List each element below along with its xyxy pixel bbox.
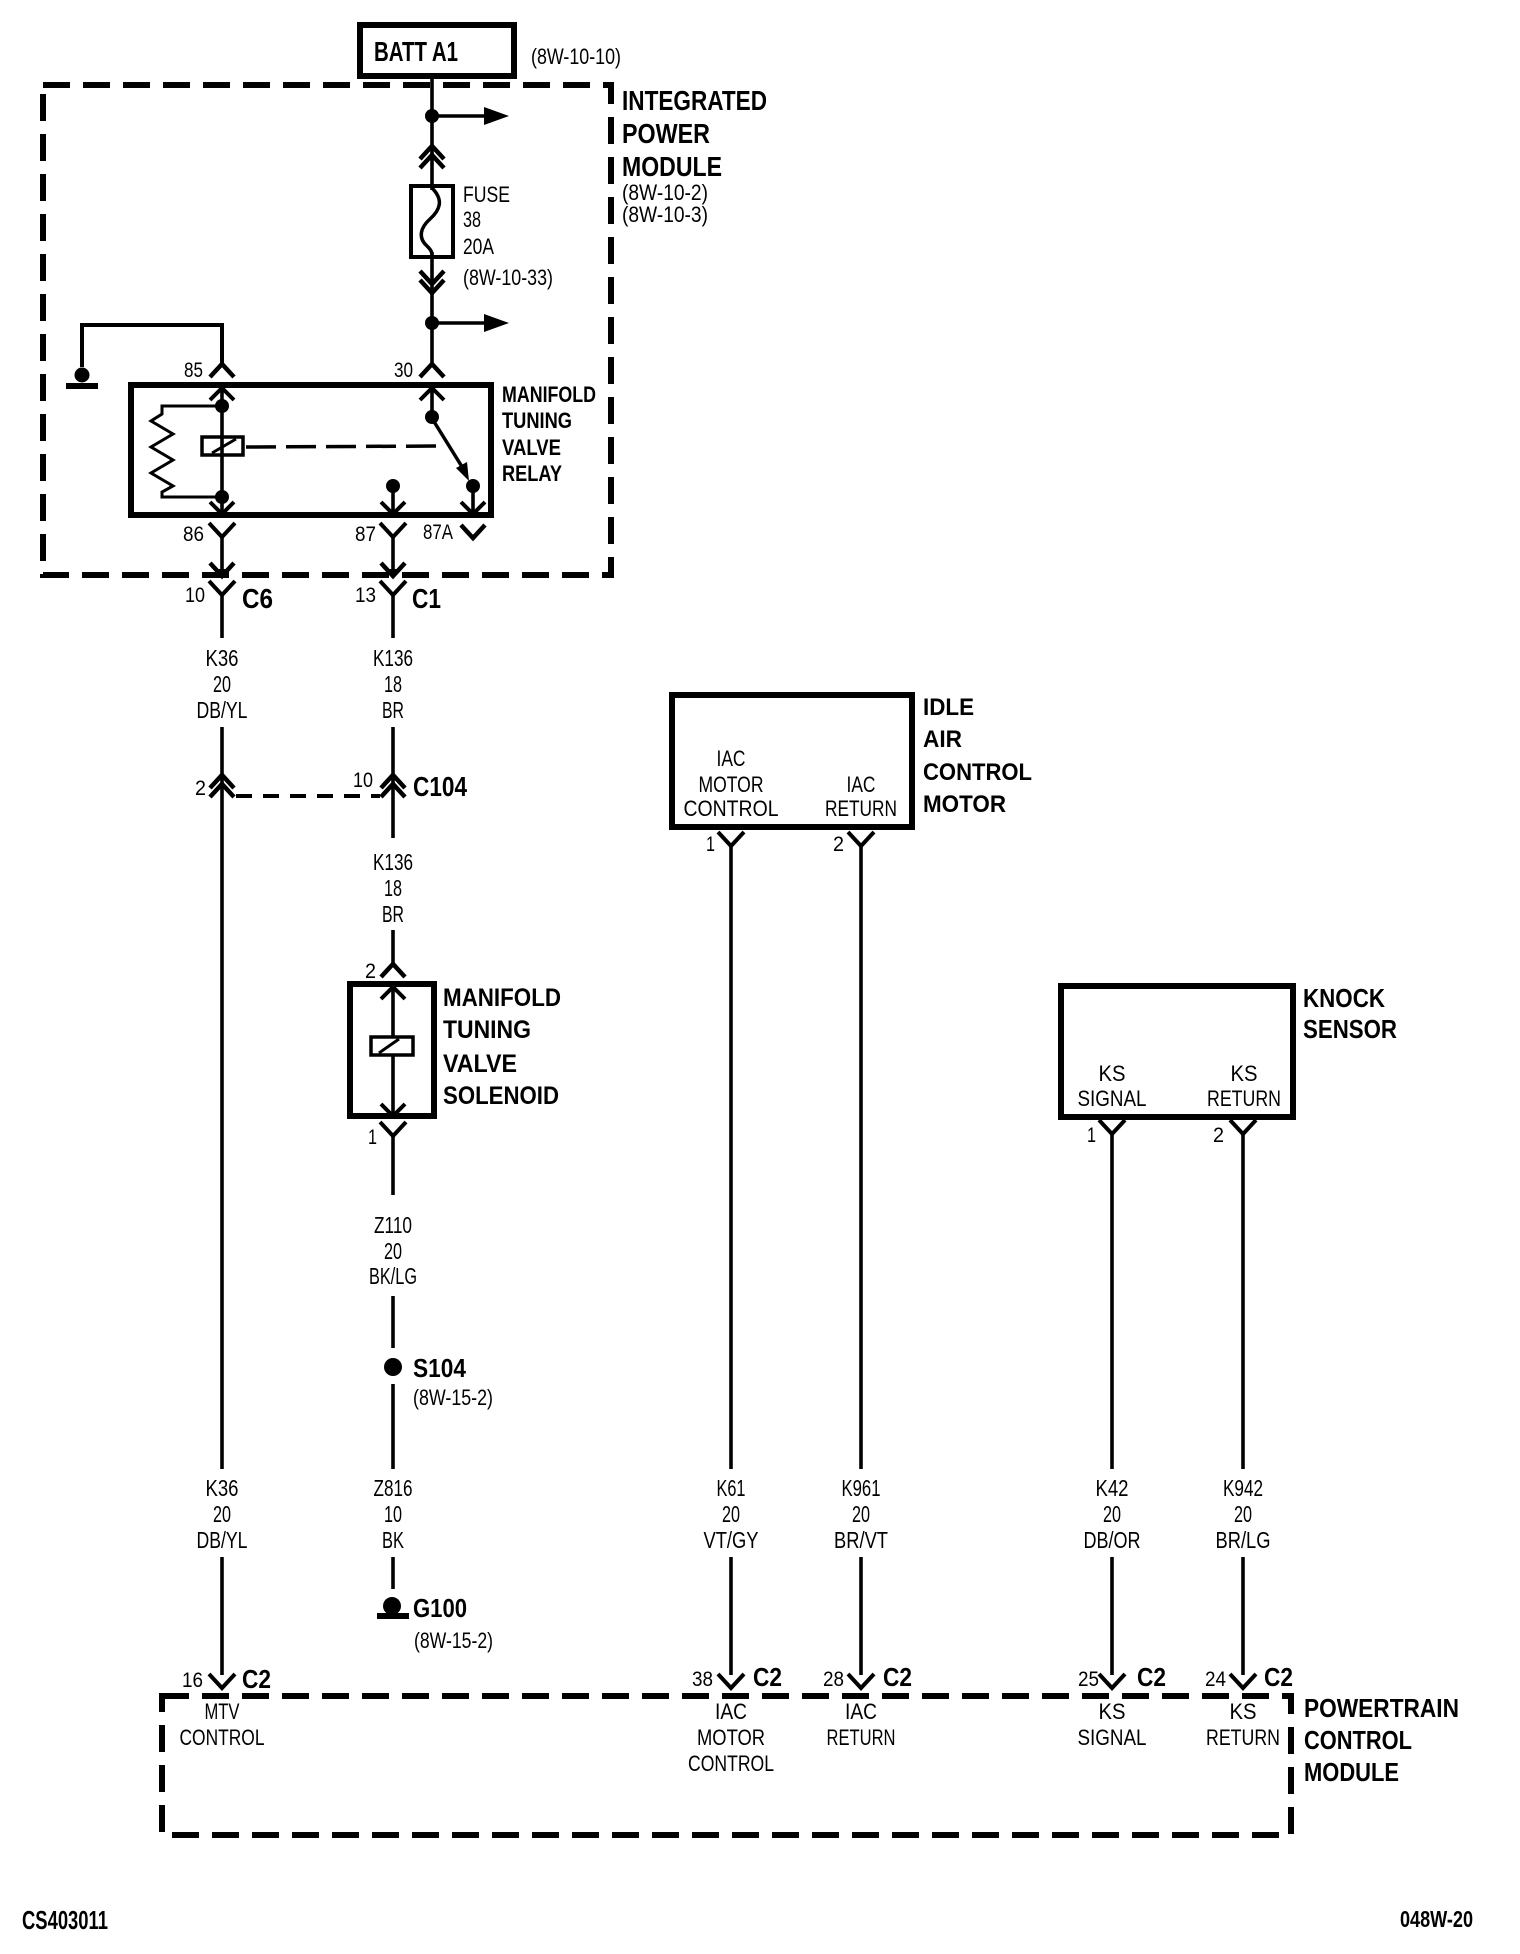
wire S104 to Z816 (391, 1384, 395, 1469)
svg-text:20A: 20A (463, 234, 494, 259)
connector C1 pin 13 label (355, 584, 376, 607)
power source box BATT A1 (360, 25, 514, 76)
svg-text:BR/VT: BR/VT (834, 1527, 888, 1553)
svg-text:16: 16 (182, 1669, 203, 1692)
solenoid pin 1 label (368, 1126, 377, 1149)
relay coil symbol (202, 437, 243, 455)
svg-text:38: 38 (692, 1668, 713, 1691)
svg-text:MODULE: MODULE (622, 151, 722, 182)
svg-text:BR: BR (382, 697, 404, 723)
svg-text:86: 86 (183, 523, 204, 546)
connector C104 pin 2 label (195, 777, 206, 800)
pcm pin 38 label (692, 1668, 713, 1691)
svg-text:KS: KS (1230, 1699, 1257, 1724)
ground G100 dot (383, 1597, 401, 1615)
wire relay pin 85 to ground (82, 325, 222, 367)
svg-text:20: 20 (722, 1501, 740, 1527)
idle air control motor pin name IAC RETURN (825, 772, 897, 821)
svg-text:C2: C2 (242, 1664, 271, 1694)
svg-text:20: 20 (213, 1501, 231, 1527)
svg-text:VALVE: VALVE (502, 435, 561, 460)
svg-text:C104: C104 (413, 771, 467, 802)
pin 85 chevron (210, 364, 234, 377)
pcm pin name KS RETURN (1206, 1699, 1280, 1750)
solenoid inner wire (391, 987, 395, 1116)
connector C104 pin 2 chevrons (210, 775, 234, 797)
svg-text:FUSE: FUSE (463, 182, 510, 207)
solenoid box MANIFOLD TUNING VALVE SOLENOID (350, 984, 434, 1116)
solenoid coil symbol (371, 1037, 413, 1055)
integrated power module dashed box (43, 85, 611, 575)
wire label K942 20 BR/LG (1216, 1475, 1271, 1553)
svg-text:POWERTRAIN: POWERTRAIN (1304, 1693, 1459, 1723)
ground splice dot (75, 368, 90, 383)
svg-text:20: 20 (852, 1501, 870, 1527)
connector C6 pin 10 label (185, 584, 205, 607)
svg-text:RETURN: RETURN (827, 1725, 896, 1750)
idle air control motor box (672, 695, 912, 827)
wire fuse to relay pin 30 (430, 252, 434, 364)
svg-text:1: 1 (706, 833, 715, 856)
pin 87A chevron (461, 525, 485, 538)
idle air control motor label (923, 694, 1032, 818)
connector C6 fork (209, 581, 235, 595)
pcm pin 25 fork (1099, 1674, 1125, 1688)
iac pin 1 label (706, 833, 715, 856)
svg-text:87: 87 (355, 523, 376, 546)
svg-text:SIGNAL: SIGNAL (1078, 1086, 1147, 1111)
pin 30 label (394, 359, 413, 382)
svg-text:DB/YL: DB/YL (197, 697, 248, 723)
svg-text:2: 2 (833, 833, 844, 856)
wire pin 87 to module edge (391, 537, 395, 571)
svg-text:28: 28 (823, 1668, 844, 1691)
pin 87A label (423, 521, 453, 544)
wire feed arrow right (432, 107, 509, 125)
wire label Z816 10 BK (374, 1475, 413, 1553)
svg-text:MANIFOLD: MANIFOLD (502, 382, 596, 407)
wire K42 to PCM pin 25 (1110, 1557, 1114, 1675)
svg-text:(8W-10-3): (8W-10-3) (622, 202, 708, 227)
svg-text:AIR: AIR (923, 726, 962, 753)
pin 86 exit arrow (210, 563, 234, 579)
svg-text:S104: S104 (413, 1353, 466, 1383)
connector C2 label at pin 25 (1137, 1662, 1166, 1692)
svg-text:(8W-10-33): (8W-10-33) (463, 265, 553, 290)
connector C6 label (242, 583, 273, 614)
svg-text:38: 38 (463, 207, 481, 232)
fuse element squiggle (421, 188, 439, 255)
svg-text:MOTOR: MOTOR (697, 1725, 765, 1750)
svg-text:SIGNAL: SIGNAL (1078, 1725, 1147, 1750)
ks pin 2 label (1213, 1124, 1224, 1147)
wire battery feed (430, 76, 434, 190)
svg-text:2: 2 (365, 960, 376, 983)
wire K942 run (1241, 1134, 1245, 1469)
inline connector chevrons below fuse (420, 271, 444, 293)
pcm pin 16 fork (209, 1674, 235, 1688)
relay switch 87A node (466, 479, 480, 493)
pcm pin name MTV CONTROL (180, 1699, 265, 1750)
iac pin 2 fork (848, 832, 874, 846)
ground symbol (66, 383, 98, 389)
relay shunt resistor (151, 406, 222, 497)
knock sensor pin name KS SIGNAL (1078, 1061, 1147, 1111)
svg-text:MOTOR: MOTOR (923, 791, 1006, 818)
pcm pin name KS SIGNAL (1078, 1699, 1147, 1750)
svg-text:C6: C6 (242, 583, 273, 614)
wire K136 above C104 (391, 727, 395, 796)
ground G100 symbol (377, 1613, 409, 1619)
svg-text:CONTROL: CONTROL (180, 1725, 265, 1750)
connector C2 label at pin 38 (753, 1662, 782, 1692)
wire pin 86 to module edge (220, 537, 224, 571)
relay pin 87A inner chevron (461, 502, 485, 514)
svg-text:MOTOR: MOTOR (699, 772, 764, 797)
wire K42 run (1110, 1134, 1114, 1469)
svg-text:MANIFOLD: MANIFOLD (443, 984, 561, 1012)
svg-text:G100: G100 (413, 1593, 467, 1623)
svg-text:(8W-10-10): (8W-10-10) (531, 44, 621, 69)
wire K36 above C104 (220, 727, 224, 796)
wire relay 87A (471, 486, 475, 515)
integrated power module label (622, 85, 767, 227)
iac pin 1 fork (718, 832, 744, 846)
wire K136 below C104 (391, 796, 395, 838)
svg-text:18: 18 (384, 875, 402, 901)
svg-text:KS: KS (1099, 1061, 1126, 1086)
ks pin 1 fork (1099, 1120, 1125, 1134)
svg-text:POWER: POWER (622, 118, 710, 149)
knock sensor pin name KS RETURN (1207, 1061, 1281, 1111)
svg-text:20: 20 (1103, 1501, 1121, 1527)
connector C2 label at pin 24 (1264, 1662, 1293, 1692)
connector C104 dashed link (236, 794, 380, 798)
sheet number 048W-20 (1400, 1906, 1473, 1932)
svg-text:CS403011: CS403011 (22, 1905, 108, 1935)
svg-text:CONTROL: CONTROL (688, 1751, 774, 1776)
relay switch common node (425, 410, 439, 424)
svg-text:20: 20 (384, 1238, 402, 1264)
svg-text:BK/LG: BK/LG (369, 1263, 417, 1289)
svg-text:2: 2 (195, 777, 206, 800)
ks pin 1 label (1087, 1124, 1096, 1147)
svg-text:BK: BK (382, 1527, 404, 1553)
connector C1 label (412, 583, 441, 614)
svg-text:13: 13 (355, 584, 376, 607)
svg-text:1: 1 (368, 1126, 377, 1149)
svg-text:BATT A1: BATT A1 (374, 36, 458, 67)
svg-text:IAC: IAC (717, 746, 746, 771)
svg-text:C2: C2 (753, 1662, 782, 1692)
reference label (8W-10-10) (531, 44, 621, 69)
powertrain control module label (1304, 1693, 1459, 1787)
svg-text:SENSOR: SENSOR (1303, 1014, 1397, 1044)
svg-text:SOLENOID: SOLENOID (443, 1082, 559, 1110)
connector C104 pin 10 chevrons (381, 775, 405, 797)
wire K61 run (729, 846, 733, 1469)
svg-text:Z816: Z816 (374, 1475, 413, 1501)
pcm pin 28 fork (848, 1674, 874, 1688)
pin 86 label (183, 523, 204, 546)
pin 30 chevron (420, 364, 444, 377)
knock sensor label (1303, 983, 1397, 1044)
fuse 38 box (411, 186, 453, 257)
wire K61 to PCM pin 38 (729, 1557, 733, 1675)
wire relay 87 (391, 486, 395, 515)
svg-text:10: 10 (185, 584, 205, 607)
svg-text:048W-20: 048W-20 (1400, 1906, 1473, 1932)
ks pin 2 fork (1230, 1120, 1256, 1134)
pin 85 label (184, 359, 203, 382)
ground G100 label (413, 1593, 467, 1623)
relay coil top node (215, 399, 229, 413)
wire K36 to PCM pin 16 (220, 1557, 224, 1675)
drawing number CS403011 (22, 1905, 108, 1935)
svg-text:K136: K136 (373, 849, 413, 875)
svg-text:K942: K942 (1223, 1475, 1263, 1501)
wire label K36 20 DB/YL (197, 645, 248, 723)
solenoid pin 2 chevron (381, 964, 405, 977)
svg-text:K61: K61 (717, 1475, 746, 1501)
idle air control motor pin name IAC MOTOR CONTROL (684, 746, 779, 821)
pcm pin 24 label (1205, 1668, 1226, 1691)
pcm pin 24 fork (1230, 1674, 1256, 1688)
svg-text:20: 20 (213, 671, 231, 697)
svg-text:18: 18 (384, 671, 402, 697)
relay 87 node (386, 479, 400, 493)
fuse label (463, 182, 553, 290)
wire label K61 20 VT/GY (704, 1475, 759, 1553)
svg-text:IAC: IAC (845, 1699, 877, 1724)
splice S104 reference (413, 1385, 493, 1410)
knock sensor box (1061, 986, 1293, 1117)
wire label Z110 20 BK/LG (369, 1212, 417, 1289)
splice S104 dot (384, 1358, 402, 1376)
svg-text:CONTROL: CONTROL (1304, 1725, 1412, 1755)
svg-text:1: 1 (1087, 1124, 1096, 1147)
solenoid label (443, 984, 561, 1110)
wire C1 stem (391, 595, 395, 638)
svg-text:10: 10 (384, 1501, 402, 1527)
svg-text:K136: K136 (373, 645, 413, 671)
svg-text:TUNING: TUNING (443, 1016, 531, 1044)
svg-text:DB/OR: DB/OR (1084, 1527, 1141, 1553)
pcm pin name IAC RETURN (827, 1699, 896, 1750)
connector C104 label (413, 771, 467, 802)
pcm pin 28 label (823, 1668, 844, 1691)
wire Z110 to S104 (391, 1296, 395, 1348)
wire label K136 18 BR repeat (373, 849, 413, 927)
connector C1 fork (380, 581, 406, 595)
svg-text:25: 25 (1078, 1668, 1099, 1691)
pin 87 fork (380, 523, 406, 537)
wire K136 to solenoid (391, 930, 395, 964)
wire Z816 to G100 (391, 1557, 395, 1589)
svg-text:C1: C1 (412, 583, 441, 614)
wire fused feed arrow right (432, 314, 509, 332)
svg-text:C2: C2 (1264, 1662, 1293, 1692)
svg-text:RETURN: RETURN (1206, 1725, 1280, 1750)
svg-text:IAC: IAC (715, 1699, 747, 1724)
relay pin 87 inner chevron (381, 502, 405, 514)
iac pin 2 label (833, 833, 844, 856)
wire label K42 20 DB/OR (1084, 1475, 1141, 1553)
svg-text:24: 24 (1205, 1668, 1226, 1691)
relay pin 30 inner chevron (420, 388, 444, 400)
wire K36 run to PCM (220, 796, 224, 1469)
svg-text:30: 30 (394, 359, 413, 382)
svg-text:K36: K36 (206, 645, 239, 671)
wire label K961 20 BR/VT (834, 1475, 888, 1553)
svg-text:CONTROL: CONTROL (684, 796, 779, 821)
svg-text:TUNING: TUNING (502, 408, 572, 433)
svg-text:10: 10 (353, 769, 373, 792)
svg-text:C2: C2 (883, 1662, 912, 1692)
svg-text:DB/YL: DB/YL (197, 1527, 248, 1553)
pin 87 exit arrow (381, 563, 405, 579)
relay pin 85 inner chevron (210, 388, 234, 400)
wire K942 to PCM pin 24 (1241, 1557, 1245, 1675)
pin 86 fork (209, 523, 235, 537)
svg-text:MODULE: MODULE (1304, 1757, 1399, 1787)
svg-text:(8W-15-2): (8W-15-2) (413, 1385, 493, 1410)
svg-text:INTEGRATED: INTEGRATED (622, 85, 767, 116)
svg-text:VALVE: VALVE (443, 1050, 517, 1078)
wire label K136 18 BR (373, 645, 413, 723)
svg-text:BR: BR (382, 901, 404, 927)
solenoid pin 1 fork (380, 1122, 406, 1136)
solenoid inner bottom chevron (381, 1104, 405, 1116)
relay coil bottom node (215, 490, 229, 504)
pin 87 label (355, 523, 376, 546)
splice S104 label (413, 1353, 466, 1383)
svg-text:(8W-15-2): (8W-15-2) (414, 1628, 493, 1653)
connector C2 label at pin 16 (242, 1664, 271, 1694)
relay coil to switch dashed link (246, 446, 443, 447)
wire solenoid pin 1 stem (391, 1136, 395, 1195)
node fused feed junction (425, 316, 439, 330)
svg-text:CONTROL: CONTROL (923, 759, 1032, 786)
svg-text:RETURN: RETURN (1207, 1086, 1281, 1111)
svg-text:RETURN: RETURN (825, 796, 897, 821)
svg-text:KNOCK: KNOCK (1303, 983, 1385, 1013)
svg-text:IDLE: IDLE (923, 694, 974, 721)
svg-text:2: 2 (1213, 1124, 1224, 1147)
solenoid inner top chevron (381, 987, 405, 999)
pcm pin 38 fork (718, 1674, 744, 1688)
svg-text:Z110: Z110 (374, 1212, 412, 1238)
connector C104 pin 10 label (353, 769, 373, 792)
svg-text:K961: K961 (842, 1475, 881, 1501)
relay pin 86 inner chevron (210, 502, 234, 514)
pcm pin name IAC MOTOR CONTROL (688, 1699, 774, 1776)
svg-text:85: 85 (184, 359, 203, 382)
svg-text:K42: K42 (1096, 1475, 1129, 1501)
svg-text:C2: C2 (1137, 1662, 1166, 1692)
ground G100 reference (414, 1628, 493, 1653)
svg-text:MTV: MTV (205, 1699, 240, 1724)
inline connector chevrons above fuse (420, 146, 444, 168)
node battery feed junction (425, 109, 439, 123)
svg-text:87A: 87A (423, 521, 453, 544)
svg-text:BR/LG: BR/LG (1216, 1527, 1271, 1553)
svg-text:20: 20 (1234, 1501, 1252, 1527)
wire label K36 20 DB/YL repeat (197, 1475, 248, 1553)
relay label (502, 382, 596, 486)
relay coil wire (220, 388, 224, 514)
svg-text:VT/GY: VT/GY (704, 1527, 759, 1553)
solenoid pin 2 label (365, 960, 376, 983)
wire K961 run (859, 846, 863, 1469)
powertrain control module dashed box (162, 1696, 1291, 1835)
wire C6 stem (220, 595, 224, 638)
relay K1 box MANIFOLD TUNING VALVE RELAY (131, 385, 491, 515)
svg-text:RELAY: RELAY (502, 461, 562, 486)
svg-text:KS: KS (1231, 1061, 1258, 1086)
svg-text:KS: KS (1099, 1699, 1126, 1724)
pcm pin 16 label (182, 1669, 203, 1692)
svg-text:IAC: IAC (847, 772, 876, 797)
connector C2 label at pin 28 (883, 1662, 912, 1692)
relay switch arm (433, 420, 469, 481)
pcm pin 25 label (1078, 1668, 1099, 1691)
wire relay pin 30 to switch (430, 388, 434, 417)
wire K961 to PCM pin 28 (859, 1557, 863, 1675)
svg-text:K36: K36 (206, 1475, 239, 1501)
